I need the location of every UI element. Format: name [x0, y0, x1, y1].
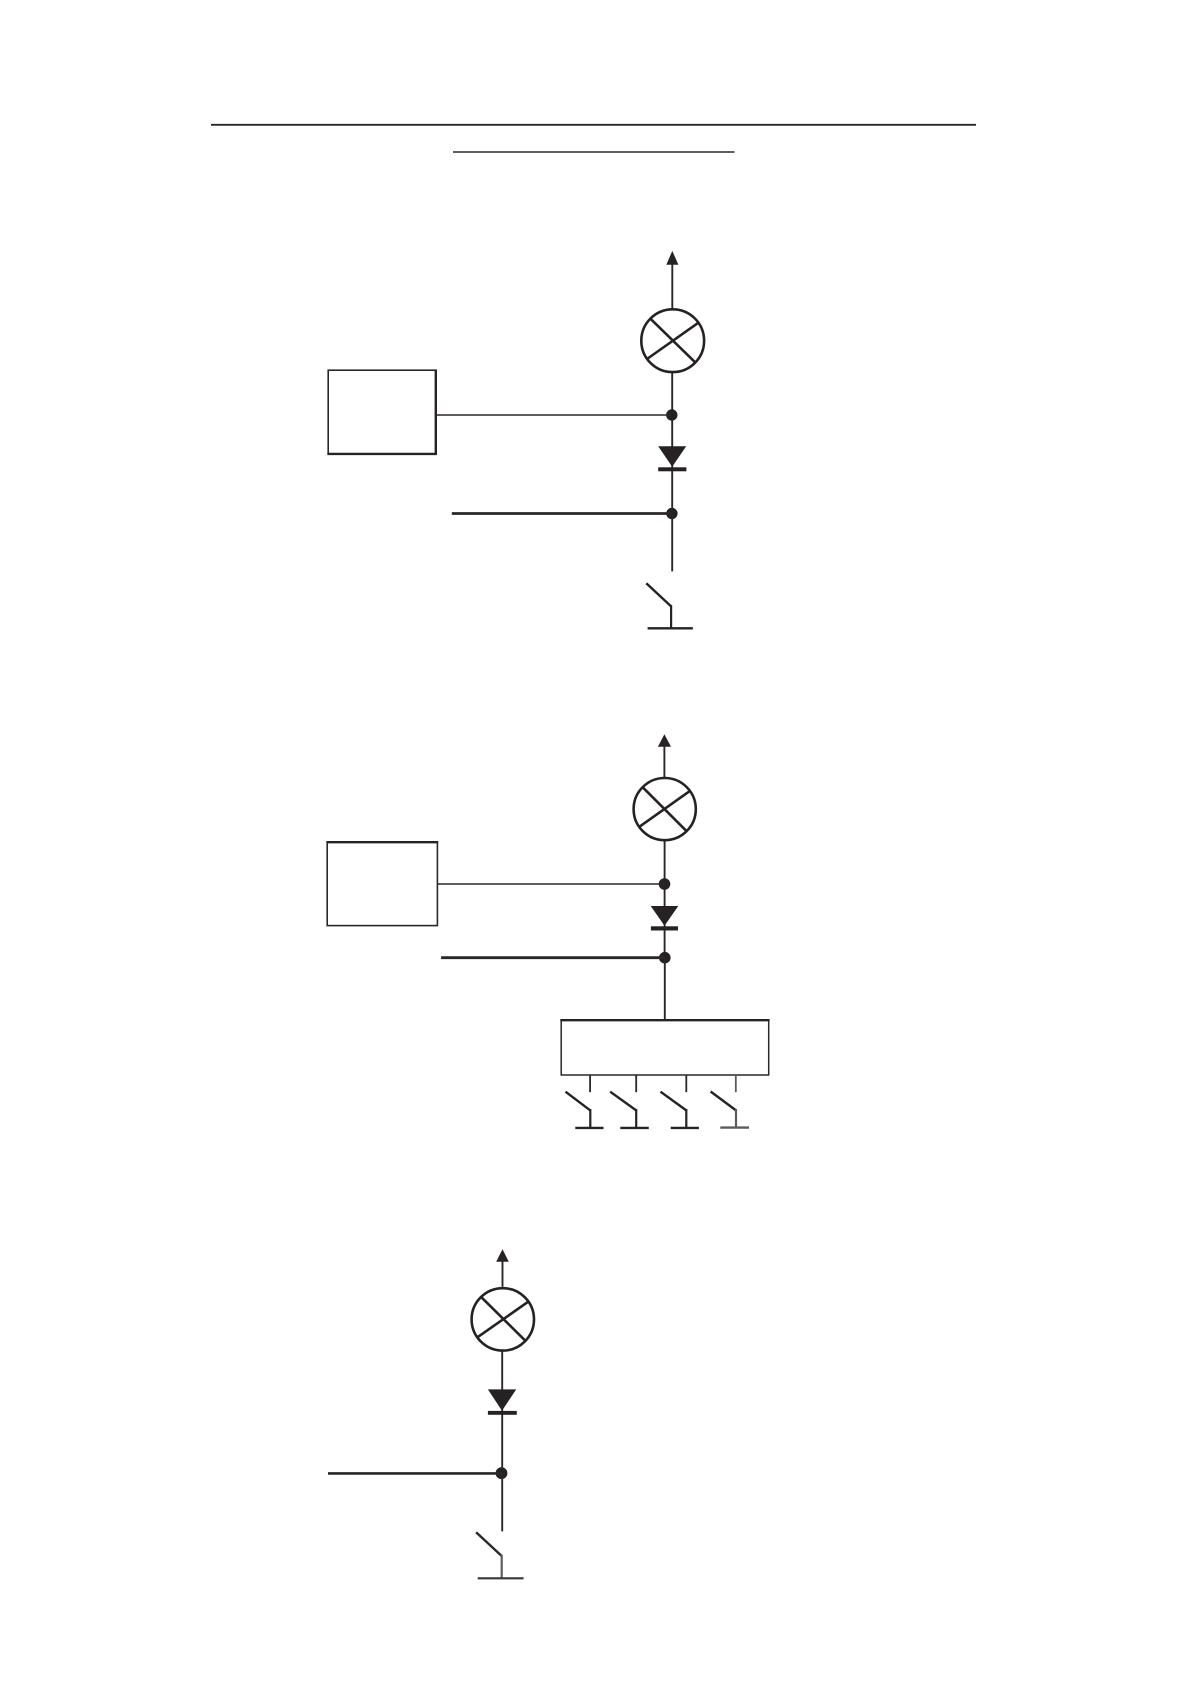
stub pin 3 [685, 1075, 687, 1092]
switch SW4 of block [711, 1092, 749, 1128]
lamp L3 [472, 1288, 534, 1350]
diode D3 [488, 1389, 517, 1414]
switch SW2 of block [610, 1092, 649, 1128]
wire bold feed (circuit 3) [328, 1472, 502, 1475]
supply arrow (circuit 1) [666, 251, 678, 309]
node junction 2 (circuit 1) [666, 508, 677, 519]
node junction 1 (circuit 2) [659, 878, 671, 890]
diode D2 [651, 906, 679, 931]
wire junction to switch (circuit 1) [671, 514, 673, 572]
node junction (circuit 3) [496, 1467, 508, 1479]
control box (circuit 1) [327, 370, 436, 455]
header rule [211, 124, 976, 126]
switch block box (circuit 2) [560, 1020, 769, 1075]
switch S3 [476, 1532, 523, 1578]
lamp L2 [634, 778, 696, 840]
wire lamp to diode (circuit 2) [664, 841, 666, 957]
wire bold feed (circuit 2) [441, 956, 665, 959]
supply arrow (circuit 2) [658, 734, 671, 777]
switch SW1 of block [566, 1092, 604, 1128]
lamp L1 [641, 309, 704, 372]
wire junction to switch (circuit 3) [501, 1473, 503, 1531]
switch SW3 of block [661, 1092, 699, 1128]
supply arrow (circuit 3) [496, 1249, 509, 1287]
stub pin 2 [635, 1075, 637, 1092]
wire from control box (circuit 2) [437, 883, 664, 885]
title underline [453, 151, 735, 153]
stub pin 1 [589, 1075, 591, 1092]
stub pin 4 [735, 1075, 737, 1092]
wire lamp to diode (circuit 3) [501, 1352, 503, 1474]
switch S1 [646, 583, 693, 628]
wire junction to switch block (circuit 2) [664, 958, 666, 1021]
wire bold feed (circuit 1) [452, 512, 672, 515]
control box (circuit 2) [326, 842, 438, 925]
node junction 1 (circuit 1) [666, 409, 677, 420]
wire lamp to diode (circuit 1) [671, 373, 673, 514]
wire from control box (circuit 1) [436, 414, 672, 416]
node junction 2 (circuit 2) [659, 952, 671, 964]
diode D1 [658, 446, 686, 471]
